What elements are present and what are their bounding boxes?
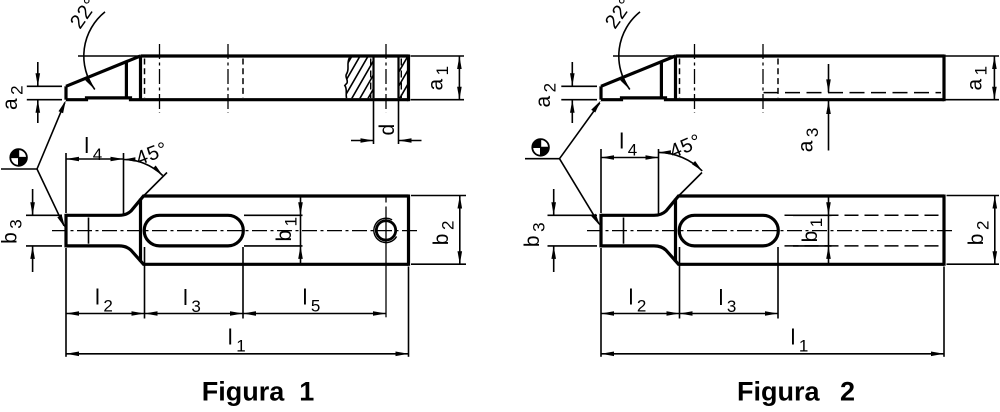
F1 plan view: top outline with 45deg flare <box>66 196 409 215</box>
F1 dimension l4 (neck length) <box>66 133 124 214</box>
machined-surface datum symbol (quartered circle) <box>532 139 549 156</box>
F1 plan view: horizontal centerline <box>52 230 417 232</box>
F1 side view: bottom edge with grinding relief <box>66 98 409 100</box>
F1 plan view: slot (stadium outline) <box>144 215 243 246</box>
F1 side view: dashed lines flanking hole <box>371 59 402 99</box>
F2 dimension b3 (neck width) <box>521 189 597 272</box>
F1 side view: hole edges in section <box>374 58 399 99</box>
F2 side view: carbide insert braze line <box>660 61 663 98</box>
F1 label l2 <box>95 285 113 316</box>
F1 dimension b1 (slot width) <box>244 196 303 264</box>
F2 side view: 22deg rake face (slanted top) <box>601 56 675 86</box>
F1 side view: thin extension of top surface for 22deg dim <box>78 55 147 57</box>
F2 dimension l4 (neck length) <box>601 129 659 215</box>
F1 extension lines for length dimensions <box>66 247 409 357</box>
F1 plan view: insert edge line in neck <box>88 218 90 244</box>
F2 side view: shank right edge <box>942 55 945 102</box>
F1 dimension a1 (shank height) <box>411 56 465 100</box>
F1 side view: hidden slot end lines (dashed) <box>145 59 244 99</box>
F2 side view: thin extension of top surface for 22deg dim <box>613 55 682 57</box>
F2 22deg angle dimension arc with arrow <box>619 12 640 90</box>
machined-surface datum symbol (quartered circle) <box>10 149 27 166</box>
F2 45deg chamfer angle dimension <box>659 130 705 196</box>
F1 plan view: hole vertical centerline / l5 extension line <box>385 198 387 318</box>
F1 label 22deg <box>66 0 103 33</box>
F1 chained dimension line l2 l3 l5 <box>66 311 386 316</box>
F2 plan view: forged head boundary edge <box>674 199 677 262</box>
F1 label l5 <box>303 285 321 316</box>
F1 22deg angle dimension arc with arrow <box>84 12 105 90</box>
F2 plan view: hidden slot continuation (dashed) <box>785 215 941 246</box>
F2 dimension l1 (overall length) <box>601 325 944 357</box>
F2 dimension b1 (slot width) <box>793 196 832 264</box>
F1 label l3 <box>183 285 201 316</box>
F1 side view: 22deg rake face (slanted top) <box>66 56 140 86</box>
F1 dimension d (hole diameter) <box>351 101 422 144</box>
F2 dimension a2 (tip height) <box>532 62 597 123</box>
svg-text:d: d <box>376 124 399 136</box>
F2 side view: shank top edge <box>676 54 945 57</box>
F1 dimension l1 (overall length) <box>66 325 409 357</box>
svg-text:Figura 1: Figura 1 <box>202 377 315 407</box>
F1 dimension b3 (neck width) <box>0 189 62 272</box>
F1 plan view: bottom outline with 45deg flare <box>66 246 409 264</box>
F1 45deg chamfer angle dimension <box>123 138 171 196</box>
F1 dimension a2 (tip height) <box>0 62 62 123</box>
F2 side view: forged head / shank boundary edge <box>674 56 677 100</box>
F2 label 22deg <box>601 0 638 33</box>
F1 dimension b2 (shank width at end) <box>411 196 466 265</box>
F1 side view: broken-out section hatching and break line <box>326 54 442 101</box>
F2 label l3 <box>719 285 737 316</box>
F2 side view: hidden slot end lines (dashed) <box>680 59 779 99</box>
F2 chained dimension line l2 l3 <box>601 311 778 316</box>
F1 side view: forged head / shank boundary edge <box>139 56 142 100</box>
F2 plan view: neck front edge <box>599 214 602 248</box>
caption Figura 1 <box>202 377 315 407</box>
F2 plan view: bottom outline with 45deg flare <box>601 246 944 264</box>
F1 side view: hole centerline (dash-dot) <box>385 44 387 113</box>
F1 plan view: forged head boundary edge <box>139 199 142 262</box>
F1 plan view: hole (two concentric circles) <box>374 218 397 242</box>
F1 plan view: neck front edge <box>64 214 67 248</box>
F1 side view: shank top edge <box>141 54 409 57</box>
F2 plan view: slot (stadium outline) <box>679 215 778 246</box>
F2 side view: hidden slot bottom line (dashed) <box>764 92 942 94</box>
F2 side view: slot arc centerlines (dash-dot) <box>695 44 764 113</box>
F2 side view: bottom edge with grinding relief <box>601 98 944 100</box>
F1 side view: tip front edge <box>64 86 67 99</box>
F2 plan view: top outline with 45deg flare <box>601 196 944 215</box>
F2 label l2 <box>629 285 647 316</box>
F2 dimension b2 (shank width at end) <box>947 196 1000 265</box>
F2 side view: tip front edge <box>599 86 602 99</box>
svg-text:Figura 2: Figura 2 <box>737 377 855 407</box>
F1 plan view: shank right end edge <box>407 195 410 266</box>
leader lines from datum symbol to cutting tip (both views) <box>525 101 601 227</box>
F1 side view: slot arc centerlines (dash-dot) <box>160 44 229 113</box>
F2 plan view: insert edge line in neck <box>623 218 625 244</box>
F1 side view: carbide insert braze line <box>125 61 128 98</box>
F2 dimension a3 (wall below slot) <box>795 64 831 152</box>
F2 dimension a1 (shank height) <box>946 56 1000 100</box>
F2 plan view: horizontal centerline <box>587 230 953 232</box>
leader lines from datum symbol to cutting tip (both views) <box>1 100 66 228</box>
F2 extension lines for length dimensions <box>601 247 944 357</box>
F2 plan view: shank right end edge <box>942 195 945 266</box>
F1 side view: shank right edge <box>407 55 410 102</box>
caption Figura 2 <box>737 377 855 407</box>
